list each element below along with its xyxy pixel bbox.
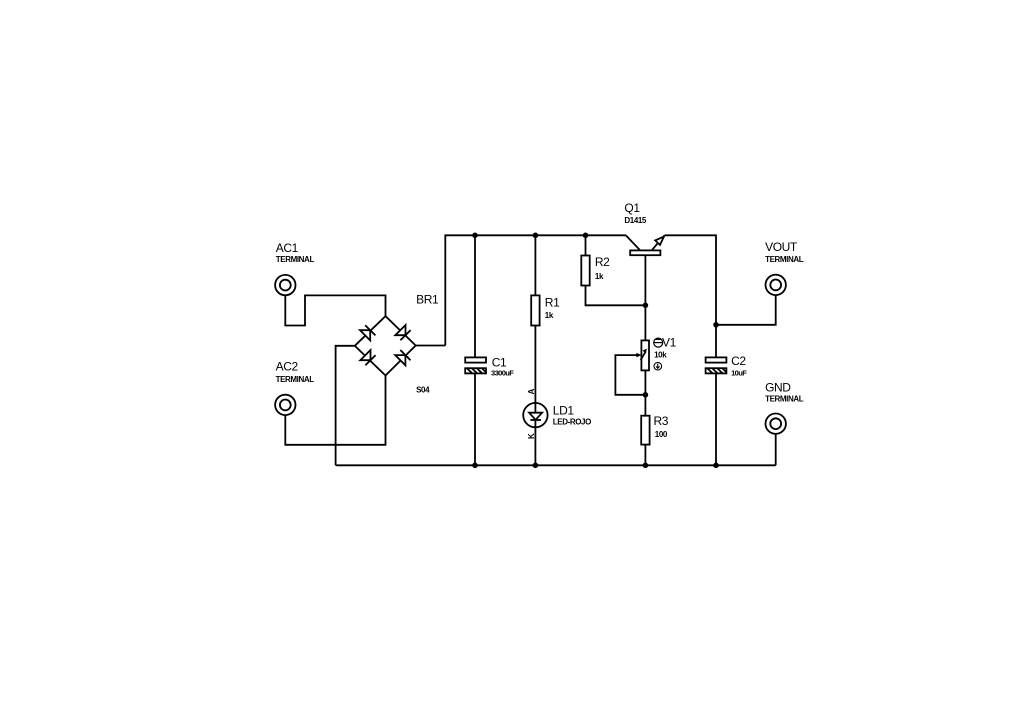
RV1 screw glyph: [654, 338, 663, 347]
svg-text:C2: C2: [731, 354, 746, 368]
svg-text:3300uF: 3300uF: [491, 369, 514, 378]
svg-text:V1: V1: [662, 335, 677, 349]
terminal VOUT: [766, 275, 786, 295]
svg-text:R3: R3: [654, 414, 669, 428]
junction dots: [472, 233, 478, 239]
svg-text:AC1: AC1: [276, 241, 299, 255]
wire C1 branch lower: [474, 373, 476, 465]
potentiometer RV1 body: [641, 340, 649, 370]
transistor Q1 emitter lead: [652, 235, 665, 250]
resistor R1: [531, 295, 539, 325]
svg-text:100: 100: [655, 430, 668, 439]
wire top rail right segment: [665, 235, 716, 357]
diode BR1 upper-left: [360, 325, 375, 340]
svg-text:LD1: LD1: [553, 404, 575, 418]
wire R2 branch upper: [585, 235, 587, 255]
wire base drop Q1 to RV1: [644, 255, 646, 340]
terminal GND: [766, 414, 786, 434]
diode BR1 upper-right: [395, 325, 410, 340]
svg-text:S04: S04: [416, 386, 430, 395]
transistor Q1 collector lead: [626, 235, 640, 250]
wire LED to bottom rail: [534, 420, 536, 465]
wire R3 to bottom rail: [644, 445, 646, 466]
svg-text:AC2: AC2: [276, 359, 299, 373]
resistor R3: [641, 416, 649, 445]
svg-text:TERMINAL: TERMINAL: [765, 395, 804, 404]
svg-text:VOUT: VOUT: [765, 240, 798, 254]
svg-text:TERMINAL: TERMINAL: [276, 255, 315, 264]
wire R2 bottom to base node: [586, 286, 646, 306]
wire R1 to LED: [534, 326, 536, 413]
wire bridge left vertex to bottom rail: [336, 346, 355, 466]
wire AC2 to bridge bottom: [285, 376, 385, 445]
wire VOUT branch: [716, 295, 776, 325]
capacitor C2: [706, 357, 727, 373]
potentiometer RV1 wiper arrow: [636, 349, 647, 361]
wire bottom rail: [336, 464, 776, 466]
LED LD1: [523, 403, 547, 427]
diode BR1 lower-left: [360, 350, 375, 365]
wire bridge right vertex to riser: [416, 345, 446, 347]
svg-text:1k: 1k: [545, 311, 554, 320]
transistor Q1 emitter arrow: [655, 237, 664, 245]
wire top rail left segment: [445, 235, 626, 345]
svg-text:R2: R2: [595, 255, 610, 269]
wire C1 branch upper: [474, 235, 476, 357]
svg-text:R1: R1: [545, 296, 560, 310]
wire C2 bottom to bottom rail: [715, 373, 717, 465]
wire RV1 wiper loop: [615, 355, 645, 395]
svg-text:10k: 10k: [654, 351, 667, 360]
svg-text:1k: 1k: [595, 272, 604, 281]
transistor Q1 base bar: [630, 250, 660, 255]
terminal AC2: [275, 395, 295, 415]
svg-text:TERMINAL: TERMINAL: [276, 375, 315, 384]
svg-text:C1: C1: [492, 355, 507, 369]
svg-text:D1415: D1415: [624, 216, 647, 225]
wire RV1 to R3: [644, 370, 646, 415]
svg-text:GND: GND: [765, 380, 791, 394]
svg-text:Q1: Q1: [624, 201, 640, 215]
wire AC1 to bridge top: [285, 295, 385, 325]
terminal AC1: [275, 275, 295, 295]
wire GND branch: [775, 434, 777, 465]
bridge BR1 diamond: [355, 316, 416, 375]
svg-text:10uF: 10uF: [731, 369, 747, 378]
svg-text:A: A: [527, 388, 536, 394]
svg-text:TERMINAL: TERMINAL: [765, 255, 804, 264]
resistor R2: [581, 256, 589, 286]
svg-text:LED-ROJO: LED-ROJO: [553, 417, 591, 426]
wire R1 branch upper: [534, 235, 536, 295]
svg-text:K: K: [527, 433, 536, 439]
diode BR1 lower-right: [395, 350, 410, 365]
svg-text:BR1: BR1: [416, 293, 439, 307]
RV1 turn-down glyph: [654, 362, 662, 370]
capacitor C1: [465, 357, 486, 373]
